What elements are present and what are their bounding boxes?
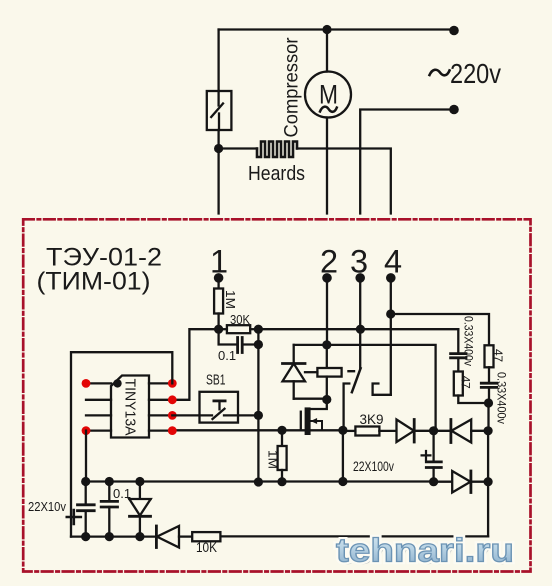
label motor tilde [320,107,337,112]
wire relay coil bottom lead [326,377,328,400]
svg-text:22X100v: 22X100v [353,458,394,474]
svg-text:Compressor: Compressor [282,37,303,138]
node drain junction [322,395,331,404]
label 0.1 lower [113,486,131,501]
resistor R3 1M lower [278,430,287,481]
wire D1 bottom to drain node [294,398,327,400]
resistor R2 30K [223,325,250,333]
wire relay coil top lead [326,345,328,368]
svg-text:47: 47 [459,376,473,389]
svg-text:0.33X400v: 0.33X400v [495,372,509,424]
pin red dot right8 [168,379,177,388]
node bottom row diode [135,532,144,541]
switch S1 thermal protector [207,91,232,130]
wire gate row from IC pin4 [172,429,282,431]
wire supply row to right corner [327,345,436,431]
resistor R4 3K9 [348,427,397,436]
wire IC pin6 to SB1 [172,414,212,416]
label 22X10v [28,499,66,514]
wire T3 riser to blade [359,278,361,368]
svg-text:SB1: SB1 [206,372,226,389]
svg-text:M: M [319,79,338,109]
label terminal 3 [350,244,368,280]
node T4 row junction [386,309,395,318]
svg-text:22X10v: 22X10v [28,499,66,514]
terminal 1 dot [214,273,224,283]
node source 3K9 junction [338,426,347,435]
label 30K [230,312,250,327]
node left of 30K [214,325,223,334]
svg-text:TINY13A: TINY13A [122,379,139,436]
node lower diode right [484,477,493,486]
svg-text:1M: 1M [223,290,238,309]
wire SB1 right [224,414,258,416]
IC left pin 4 [86,429,111,431]
button SB1 symbol [213,401,226,419]
diode D1 freewheel [283,345,306,399]
wire T4 node row to right rail [391,314,489,345]
svg-text:Heards: Heards [248,163,305,185]
node right rail 403 [484,398,493,407]
wire node left to IC pin riser [172,329,218,400]
svg-text:tehnari.ru: tehnari.ru [336,532,514,569]
label Compressor vertical [282,37,303,138]
label terminal 4 [384,244,402,280]
node gnd row cap22x10 [81,477,90,486]
node gnd row c01 [105,477,114,486]
wire left drop to switch [217,30,219,92]
wire mains bottom to terminal 3 [360,110,454,214]
node gate row left [277,426,286,435]
svg-text:(ТИМ-01): (ТИМ-01) [37,268,151,296]
node switch-coil junction [214,144,223,153]
node C4 bottom [429,477,438,486]
wire R5 to node 403 [458,396,488,404]
capacitor C3 0.33X400v right [481,367,496,403]
wire top horizontal mains [219,28,454,30]
label TINY13A [122,379,139,436]
inductor L1 Heards heater coil [257,142,297,158]
label 0.33X400v left [462,316,476,366]
label title TEU-01-2 [37,244,163,296]
capacitor C1 0.1 [219,329,259,352]
pin red dot right5 [168,426,177,435]
wire IC top loop [71,352,172,536]
capacitor C6 0.1 lower [101,482,117,537]
label 0.33X400v right [495,372,509,424]
wire supply row left [294,344,327,346]
terminal 3 dot [355,273,365,283]
label 1M lower [266,450,281,469]
relay K1 fixed contact left [344,384,350,430]
relay K1 moving blade [352,368,361,392]
pin red dot right7 [168,395,177,404]
wire supply row relay [326,278,328,345]
terminal mains bottom dot [449,105,459,115]
wire row to terminal3 riser and right cap branch [258,328,458,330]
label 22X100v [353,458,394,474]
IC left pin 1 [86,382,111,384]
svg-text:220v: 220v [450,58,501,89]
node bottom row cap22x10 [81,532,90,541]
diode D6 bottom [156,526,192,548]
wire motor bottom to terminal 2 [326,118,328,214]
transistor Q1 mosfet [301,400,327,436]
wire bottom return rail [220,535,488,537]
label AC tilde [430,70,450,76]
label 10K [196,539,218,555]
wire 30K to node [250,328,258,330]
label 3K9 [360,411,384,427]
diode D2 [397,420,434,443]
label terminal 2 [320,244,338,280]
label terminal 1 [210,244,228,280]
capacitor C2 0.33X400v left [451,354,466,372]
resistor R1 1M [214,289,223,314]
wire terminal 1 to R1 [217,278,219,289]
pin red dot left4 [82,426,91,435]
wire right rail bottom [487,431,489,537]
label 1M [223,290,238,309]
IC right pin 6 [149,414,172,416]
label Heards [248,163,305,185]
IC left pin 3 [86,414,111,416]
node right of 30K [254,325,263,334]
wire R1 to node [217,314,219,330]
IC left pin 2 [86,399,111,401]
node T2 supply junction [322,340,331,349]
button SB1 box [200,392,239,423]
label 47 left [459,376,473,389]
node diode row left [429,426,438,435]
terminal 2 dot [322,273,332,283]
svg-text:0.1: 0.1 [218,348,236,363]
wire terminal 1 riser [217,149,219,214]
label 0.1 [218,348,236,363]
node C1 right [254,340,263,349]
IC pin1 marker dot [113,379,121,387]
wire bottom row left [71,535,156,537]
node gnd row r3 [277,477,286,486]
wire ground row 481 [86,480,434,482]
relay K1 fixed contact right [373,384,391,395]
pin red dot left1 [82,379,91,388]
wire inductor to terminal 4 [297,149,391,214]
label ~220v [450,58,501,89]
pin red dot right6 [168,411,177,420]
wire IC pin5 down [85,431,87,482]
node gnd row contact [338,477,347,486]
wire motor top [326,30,328,72]
label 47 right [491,349,505,362]
svg-text:10K: 10K [196,539,218,555]
resistor R7 10K [192,532,220,541]
capacitor C4 22X100v electrolytic [422,431,442,482]
label M motor [319,79,338,109]
wire right rail 403 to diode row [487,403,489,431]
resistor R5 47 left [454,372,463,396]
wire node to inductor [219,147,257,149]
node top motor junction [322,25,331,34]
diode D4 lower [434,471,489,493]
resistor R6 47 right [485,345,494,367]
wire gate row to source node [282,429,343,431]
node SB1 rail bottom [254,477,263,486]
relay K1 coil [305,368,354,377]
wire switch to coil node [217,130,219,149]
svg-text:3K9: 3K9 [360,411,384,427]
node T3 riser junction [356,325,365,334]
IC right pin 5 [149,429,172,431]
terminal 4 dot [386,273,396,283]
motor M1 compressor [305,72,351,118]
border control unit dashed box [23,219,530,571]
label SB1 [206,372,226,389]
terminal mains top dot [449,26,459,36]
diode D3 [434,420,489,443]
svg-text:47: 47 [491,349,505,362]
svg-text:0.33X400v: 0.33X400v [462,316,476,366]
IC right pin 8 [149,382,172,384]
svg-text:1M: 1M [266,450,281,469]
wire left 0.33 branch down [457,329,459,353]
wire contact to source node [342,430,344,481]
IC U1 TINY13A [111,376,149,438]
node gnd row diode [135,477,144,486]
node SB1 right junction [254,411,263,420]
wire SB1 rail vertical [257,329,259,482]
IC right pin 7 [149,399,172,401]
node bottom row c01 [105,532,114,541]
diode D5 vertical [129,482,150,537]
node diode row right [484,426,493,435]
capacitor C5 22X10v electrolytic [67,482,94,537]
wire T4 riser [390,278,392,395]
